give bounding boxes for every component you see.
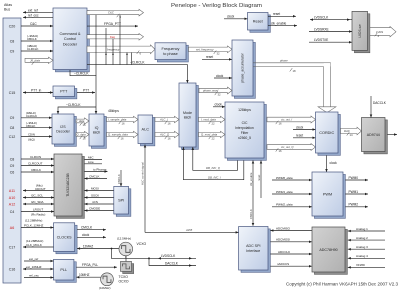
svg-text:PWM: PWM bbox=[323, 192, 332, 196]
svg-text:freq: freq bbox=[110, 35, 115, 39]
svg-text:32: 32 bbox=[217, 52, 221, 56]
svg-text:Line: Line bbox=[88, 160, 94, 164]
svg-text:128kbps: 128kbps bbox=[238, 108, 251, 112]
svg-text:48kbps: 48kbps bbox=[108, 109, 119, 113]
svg-text:ref_osc: ref_osc bbox=[28, 13, 39, 17]
svg-text:ext_ref: ext_ref bbox=[28, 8, 38, 12]
svg-text:Frequency: Frequency bbox=[162, 47, 180, 51]
svg-text:Penelope - Verilog Block Diag: Penelope - Verilog Block Diagram bbox=[171, 3, 262, 9]
svg-text:ref_osc: ref_osc bbox=[29, 273, 39, 277]
svg-text:CMCLK: CMCLK bbox=[117, 174, 121, 184]
svg-text:reset: reset bbox=[257, 175, 261, 181]
svg-text:Analog 3: Analog 3 bbox=[356, 245, 368, 249]
svg-text:A6: A6 bbox=[10, 226, 14, 230]
svg-text:PWM1_data: PWM1_data bbox=[276, 190, 293, 194]
svg-text:C4: C4 bbox=[10, 210, 15, 214]
svg-text:Bus: Bus bbox=[4, 8, 10, 12]
svg-text:ADCMISO: ADCMISO bbox=[276, 226, 291, 230]
svg-text:Filter: Filter bbox=[241, 131, 249, 135]
svg-text:Decoder: Decoder bbox=[63, 42, 78, 46]
svg-text:C8: C8 bbox=[10, 39, 15, 43]
svg-text:ALC: ALC bbox=[142, 128, 150, 132]
svg-text:Interpolation: Interpolation bbox=[235, 126, 254, 130]
svg-text:CMODE: CMODE bbox=[89, 206, 100, 210]
svg-text:latch: latch bbox=[93, 131, 101, 135]
svg-text:CLRCOUT: CLRCOUT bbox=[28, 161, 43, 165]
svg-text:C9: C9 bbox=[10, 116, 15, 120]
svg-text:16: 16 bbox=[83, 137, 87, 141]
svg-text:Atlas: Atlas bbox=[4, 3, 12, 7]
svg-text:A11: A11 bbox=[9, 189, 15, 193]
svg-text:PCLK_12MHZ: PCLK_12MHZ bbox=[24, 223, 44, 227]
svg-text:PWM0: PWM0 bbox=[349, 176, 359, 180]
svg-text:CMCLK: CMCLK bbox=[249, 209, 253, 219]
svg-text:ADC SPI: ADC SPI bbox=[246, 244, 260, 248]
svg-text:(12.288MHz): (12.288MHz) bbox=[25, 219, 42, 223]
svg-text:32: 32 bbox=[218, 93, 222, 97]
svg-text:SSCK: SSCK bbox=[91, 193, 99, 197]
svg-text:Mode: Mode bbox=[183, 111, 192, 115]
svg-text:reset: reset bbox=[296, 134, 303, 138]
svg-text:ext_ref: ext_ref bbox=[29, 257, 38, 261]
svg-text:LVDS xvr: LVDS xvr bbox=[358, 23, 362, 37]
svg-text:C8: C8 bbox=[10, 157, 15, 161]
svg-text:TLV320AIC23B: TLV320AIC23B bbox=[66, 173, 70, 197]
svg-text:CIC: CIC bbox=[242, 121, 248, 125]
svg-text:CORDIC: CORDIC bbox=[319, 131, 334, 135]
svg-text:~CLRCLK: ~CLRCLK bbox=[74, 72, 89, 76]
svg-text:C20: C20 bbox=[9, 24, 16, 28]
svg-text:LROUT: LROUT bbox=[33, 207, 43, 211]
svg-text:CLRCLK: CLRCLK bbox=[26, 114, 37, 118]
svg-text:A10: A10 bbox=[9, 196, 15, 200]
svg-text:16: 16 bbox=[168, 137, 172, 141]
svg-text:phase: phase bbox=[279, 59, 288, 63]
svg-text:clk_enable: clk_enable bbox=[271, 21, 286, 25]
svg-text:ext_10MHZ: ext_10MHZ bbox=[26, 265, 42, 269]
svg-text:Analog 2: Analog 2 bbox=[356, 236, 368, 240]
svg-text:CLRCLK: CLRCLK bbox=[27, 47, 38, 51]
svg-text:CLRCIN: CLRCIN bbox=[30, 155, 41, 159]
svg-text:16: 16 bbox=[168, 122, 172, 126]
svg-text:J6_data: J6_data bbox=[30, 58, 40, 62]
svg-text:set_frequency: set_frequency bbox=[196, 47, 214, 51]
svg-text:to phase: to phase bbox=[163, 52, 178, 56]
svg-text:C16: C16 bbox=[9, 267, 16, 271]
svg-text:ADCMOSI: ADCMOSI bbox=[276, 238, 290, 242]
svg-text:Q_sample_data: Q_sample_data bbox=[108, 133, 128, 137]
svg-text:reset: reset bbox=[273, 12, 280, 16]
svg-text:PTT: PTT bbox=[83, 88, 89, 92]
svg-text:FPGA_PLL: FPGA_PLL bbox=[82, 263, 98, 267]
svg-text:nCS: nCS bbox=[92, 200, 98, 204]
svg-text:CLOCKS: CLOCKS bbox=[57, 235, 72, 239]
svg-text:Analog 1: Analog 1 bbox=[356, 227, 368, 231]
svg-text:Decoder: Decoder bbox=[56, 130, 70, 134]
svg-text:Analog 4: Analog 4 bbox=[356, 254, 368, 258]
svg-text:Q_mod_data: Q_mod_data bbox=[201, 133, 218, 137]
svg-text:16: 16 bbox=[122, 122, 126, 126]
svg-text:I2S: I2S bbox=[60, 125, 66, 129]
svg-text:clock: clock bbox=[296, 125, 304, 129]
svg-text:AIN5: AIN5 bbox=[185, 228, 193, 232]
svg-text:14: 14 bbox=[350, 133, 354, 137]
svg-text:LVDSCLK: LVDSCLK bbox=[161, 254, 176, 258]
svg-text:CBCLK: CBCLK bbox=[31, 168, 41, 172]
svg-text:10MHZ: 10MHZ bbox=[79, 273, 90, 277]
svg-text:16: 16 bbox=[279, 149, 283, 153]
svg-text:DACCLK: DACCLK bbox=[165, 261, 179, 265]
svg-text:~CLRCLK: ~CLRCLK bbox=[66, 103, 81, 107]
svg-text:clk_enable: clk_enable bbox=[249, 172, 253, 186]
svg-text:16: 16 bbox=[83, 123, 87, 127]
svg-text:(I&Q): (I&Q) bbox=[28, 137, 35, 141]
svg-text:22: 22 bbox=[212, 137, 216, 141]
svg-text:CMCLK: CMCLK bbox=[81, 226, 93, 230]
svg-text:clock: clock bbox=[330, 161, 338, 165]
svg-text:ADCCLK: ADCCLK bbox=[278, 250, 290, 254]
svg-text:C9: C9 bbox=[10, 49, 15, 53]
svg-text:CDOUT: CDOUT bbox=[35, 187, 46, 191]
svg-text:Copyright (c) Phil Harman VK6A: Copyright (c) Phil Harman VK6APH 15th De… bbox=[286, 282, 399, 287]
svg-text:x2560_5: x2560_5 bbox=[238, 136, 251, 140]
svg-text:_12MHZ: _12MHZ bbox=[80, 244, 93, 248]
svg-text:18: 18 bbox=[293, 69, 297, 73]
svg-text:I2C_SDA: I2C_SDA bbox=[31, 200, 44, 204]
svg-text:clock: clock bbox=[216, 74, 224, 78]
svg-text:frequency: frequency bbox=[107, 47, 120, 51]
svg-text:C6: C6 bbox=[10, 170, 15, 174]
svg-text:to Phones: to Phones bbox=[93, 167, 107, 171]
svg-text:22: 22 bbox=[212, 122, 216, 126]
svg-text:16: 16 bbox=[121, 137, 125, 141]
svg-text:cic_out_I: cic_out_I bbox=[281, 118, 292, 122]
svg-text:Control: Control bbox=[64, 37, 76, 41]
svg-text:MIC: MIC bbox=[88, 155, 94, 159]
svg-text:cic_out_Q: cic_out_Q bbox=[281, 145, 294, 149]
svg-text:PTT_in: PTT_in bbox=[31, 88, 42, 92]
svg-text:Command &: Command & bbox=[59, 32, 81, 36]
svg-text:DACCLK: DACCLK bbox=[373, 101, 387, 105]
svg-text:PTT: PTT bbox=[60, 90, 68, 94]
svg-text:PWM1: PWM1 bbox=[349, 190, 359, 194]
svg-text:C8: C8 bbox=[10, 126, 15, 130]
svg-text:MOSI: MOSI bbox=[91, 186, 99, 190]
svg-text:nADCCS: nADCCS bbox=[277, 262, 289, 266]
svg-text:LVDSCLK: LVDSCLK bbox=[314, 15, 329, 19]
svg-text:clock: clock bbox=[227, 15, 235, 19]
svg-text:clock: clock bbox=[215, 103, 223, 107]
svg-text:reset: reset bbox=[206, 55, 213, 59]
svg-text:CDIN: CDIN bbox=[28, 133, 35, 137]
svg-text:DB_INC_Q: DB_INC_Q bbox=[206, 166, 221, 170]
svg-text:CLK_MCLK: CLK_MCLK bbox=[26, 243, 42, 247]
svg-text:(12.5MHz): (12.5MHz) bbox=[117, 236, 131, 240]
svg-text:Interface: Interface bbox=[246, 249, 260, 253]
svg-text:CBCLK: CBCLK bbox=[27, 37, 37, 41]
svg-text:C&C: C&C bbox=[108, 11, 115, 15]
svg-text:IQ: IQ bbox=[95, 126, 99, 130]
svg-text:SPI: SPI bbox=[118, 199, 124, 203]
svg-text:Reset: Reset bbox=[253, 20, 264, 24]
svg-text:DB_INC_I: DB_INC_I bbox=[208, 176, 221, 180]
svg-text:PWM2: PWM2 bbox=[349, 203, 359, 207]
svg-text:PWM0_data: PWM0_data bbox=[276, 176, 293, 180]
svg-text:TCXO: TCXO bbox=[119, 275, 129, 279]
svg-text:latch: latch bbox=[184, 116, 192, 120]
svg-text:phase_word: phase_word bbox=[202, 89, 219, 93]
svg-text:FPGA_PTT: FPGA_PTT bbox=[104, 22, 121, 26]
svg-text:C15: C15 bbox=[9, 91, 16, 95]
svg-text:OCXO: OCXO bbox=[119, 280, 129, 284]
svg-text:CMCLK: CMCLK bbox=[89, 174, 100, 178]
svg-text:A12: A12 bbox=[9, 202, 15, 206]
svg-text:ADC78H90: ADC78H90 bbox=[319, 248, 337, 252]
svg-text:C12: C12 bbox=[9, 135, 16, 139]
svg-text:VFWD: VFWD bbox=[356, 263, 366, 267]
svg-text:C17: C17 bbox=[9, 245, 16, 249]
svg-text:phase_accumulator: phase_accumulator bbox=[241, 52, 245, 82]
svg-text:C&C: C&C bbox=[30, 22, 37, 26]
svg-text:I2C_SCL: I2C_SCL bbox=[31, 193, 44, 197]
svg-text:CBCLK: CBCLK bbox=[26, 124, 35, 128]
svg-text:(10MHz): (10MHz) bbox=[99, 286, 111, 290]
svg-text:AD9744: AD9744 bbox=[367, 133, 380, 137]
svg-text:ALC control signal: ALC control signal bbox=[141, 162, 145, 185]
svg-text:C9: C9 bbox=[10, 164, 15, 168]
svg-text:16: 16 bbox=[279, 122, 283, 126]
svg-text:LVDSRXE: LVDSRXE bbox=[314, 27, 329, 31]
svg-text:LVDSTXE: LVDSTXE bbox=[314, 38, 328, 42]
svg-text:(Rx Radio): (Rx Radio) bbox=[31, 212, 45, 216]
svg-text:VCXO: VCXO bbox=[137, 242, 147, 246]
svg-text:clock: clock bbox=[82, 233, 90, 237]
svg-text:PWM2_data: PWM2_data bbox=[276, 203, 293, 207]
svg-text:PLL: PLL bbox=[60, 268, 67, 272]
svg-text:~CLRCLK: ~CLRCLK bbox=[130, 60, 145, 64]
